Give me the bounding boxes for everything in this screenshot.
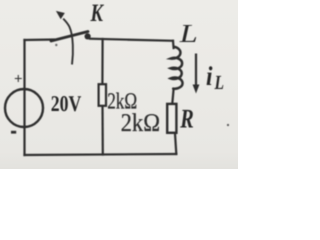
current arrow iL shaft — [195, 54, 197, 88]
wire right drop to inductor — [172, 41, 175, 48]
wire middle branch upper — [101, 39, 103, 85]
svg-text:L: L — [214, 72, 224, 94]
svg-text:20V: 20V — [51, 91, 82, 116]
voltage source V1 circle — [5, 89, 43, 127]
switch K pivot dot — [85, 33, 91, 39]
resistor R1 body (middle branch) — [99, 84, 106, 106]
wire resistor R to bottom — [175, 134, 176, 155]
wire top-left segment — [25, 38, 55, 41]
wire left branch — [23, 40, 25, 155]
stray ink speck — [227, 124, 229, 126]
switch K blade — [51, 32, 88, 42]
switch contact speck — [55, 44, 57, 46]
svg-text:L: L — [179, 19, 198, 48]
switch K action arc — [63, 19, 73, 65]
wire bottom — [25, 154, 177, 155]
inductor L coil — [171, 47, 183, 89]
svg-text:K: K — [90, 0, 105, 27]
wire middle branch lower — [101, 106, 104, 155]
switch K arrowhead — [56, 11, 65, 19]
wire top-right segment — [90, 39, 173, 41]
svg-text:R: R — [180, 104, 194, 134]
svg-text:i: i — [206, 61, 213, 91]
resistor R body (right branch) — [167, 104, 176, 133]
svg-text:+: + — [14, 72, 23, 88]
wire inductor to resistor R — [172, 89, 173, 104]
voltage source minus sign — [11, 131, 16, 134]
current arrow iL head — [193, 85, 200, 94]
svg-text:2kΩ: 2kΩ — [121, 108, 161, 137]
